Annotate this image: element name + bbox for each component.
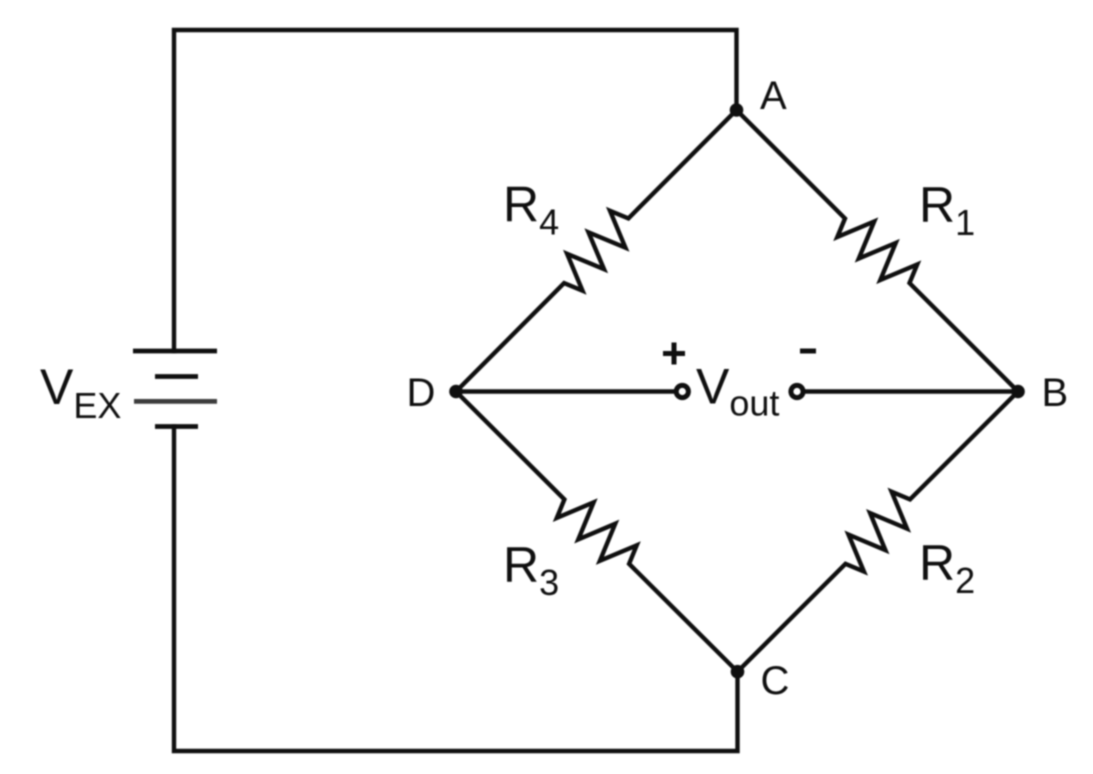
svg-text:Vout: Vout [696,359,779,424]
wire bottom: battery to node C [174,427,738,752]
minus sign [800,349,816,354]
svg-text:VEX: VEX [40,359,121,426]
resistor R3 [456,392,738,672]
terminal + circle [676,385,688,397]
battery plate long top [133,349,217,354]
svg-text:D: D [407,371,436,415]
svg-text:R2: R2 [919,535,975,601]
svg-text:R1: R1 [919,177,975,243]
battery VEX [133,351,217,427]
resistor R2 [738,392,1019,672]
svg-text:C: C [761,659,790,703]
svg-text:R4: R4 [503,177,559,243]
resistor R1 [737,110,1019,392]
wire top: battery to node A [174,30,737,351]
node D [449,385,463,399]
node C [731,665,745,679]
node A [730,103,744,117]
plus sign [663,343,685,365]
resistor R4 [456,110,737,392]
wire D to + terminal [456,389,674,393]
battery plate long gray [134,399,217,404]
node B [1011,385,1025,399]
svg-text:B: B [1042,371,1069,415]
terminal - circle [791,385,803,397]
svg-text:R3: R3 [503,537,559,603]
battery plate short bottom [155,424,198,429]
battery plate short [155,374,198,379]
svg-text:A: A [760,74,787,118]
wire - terminal to B [806,389,1018,393]
